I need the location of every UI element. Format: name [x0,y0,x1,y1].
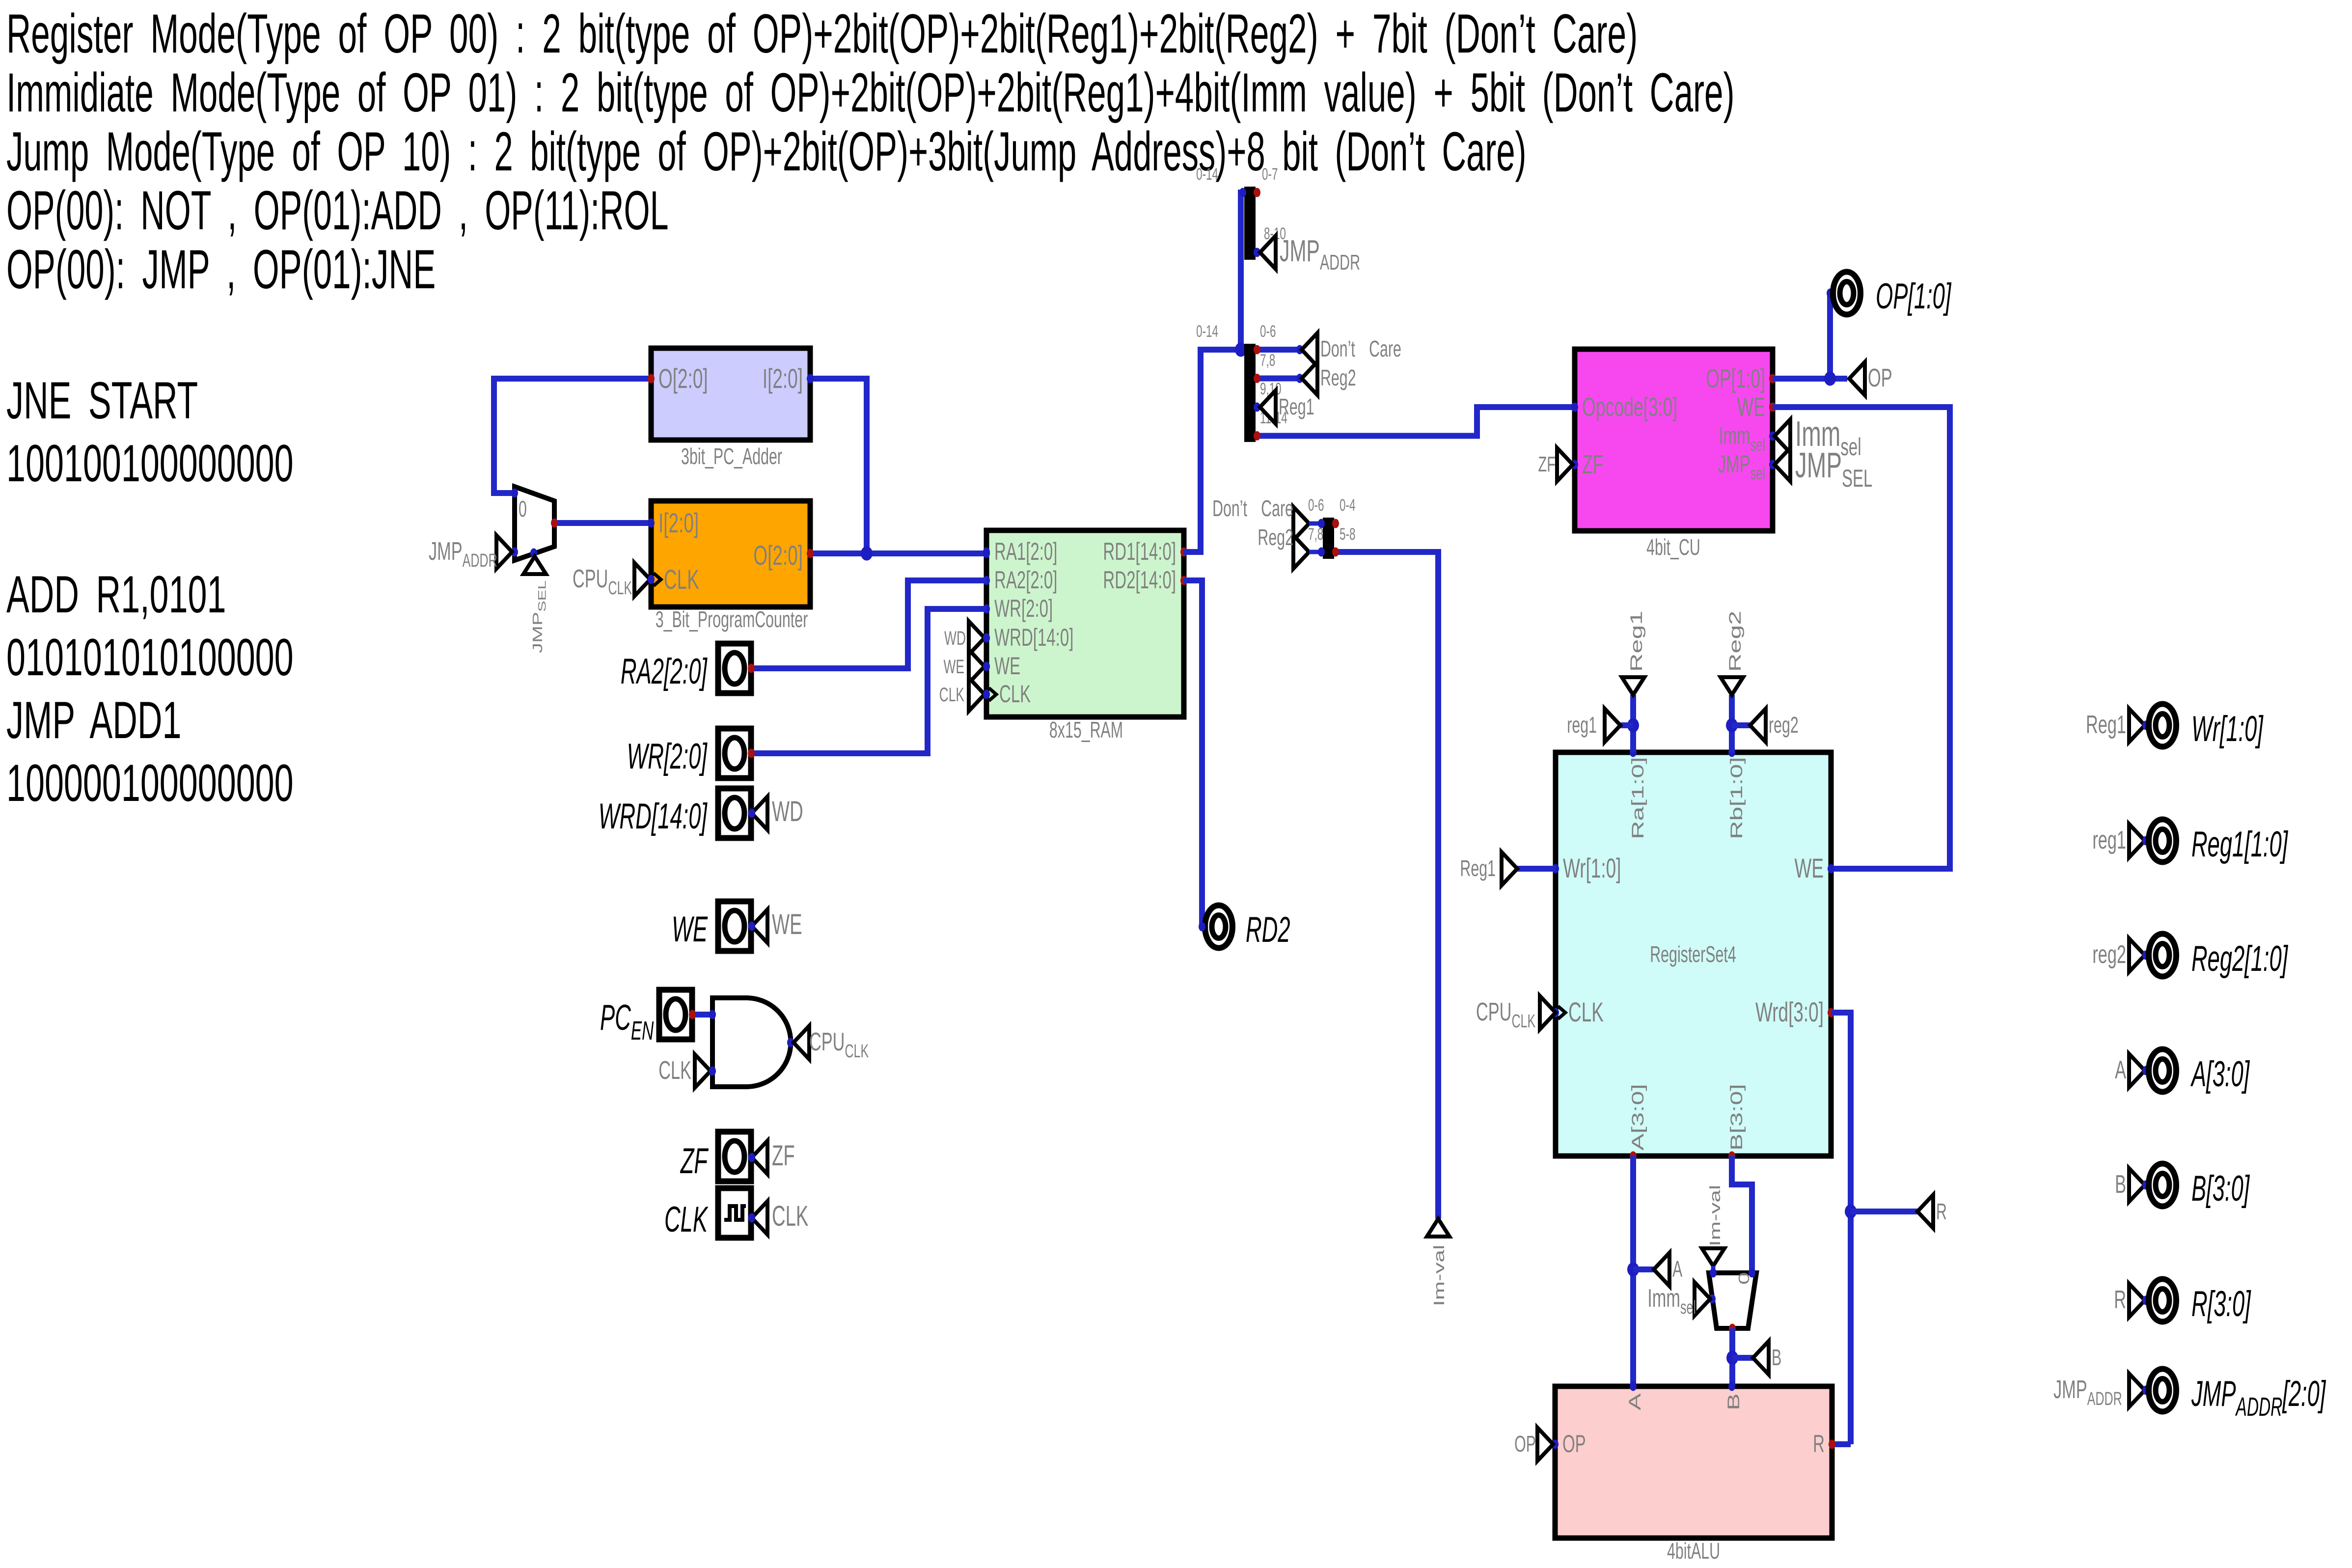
svg-text:RA2[2:0]: RA2[2:0] [994,566,1057,593]
svg-text:100100100000000: 100100100000000 [6,434,294,493]
svg-text:WR[2:0]: WR[2:0] [994,595,1053,622]
svg-text:Im-val: Im-val [1431,1245,1448,1306]
svg-text:B[3:0]: B[3:0] [1727,1084,1746,1151]
svg-text:WE: WE [1737,392,1765,422]
svg-text:reg2: reg2 [1769,713,1799,738]
svg-text:OP[1:0]: OP[1:0] [1876,276,1952,316]
svg-text:A[3:0]: A[3:0] [1629,1084,1647,1151]
svg-text:CLK: CLK [939,684,965,706]
svg-text:OP[1:0]: OP[1:0] [1706,364,1765,393]
svg-text:Reg1[1:0]: Reg1[1:0] [2191,824,2289,864]
svg-text:Wr[1:0]: Wr[1:0] [2191,709,2264,749]
svg-text:3_Bit_ProgramCounter: 3_Bit_ProgramCounter [656,607,808,633]
svg-text:A[3:0]: A[3:0] [2190,1054,2250,1094]
svg-text:RD2[14:0]: RD2[14:0] [1103,566,1176,593]
svg-text:ZF: ZF [1538,452,1556,476]
svg-text:Jump Mode(Type of OP 10) : 2 b: Jump Mode(Type of OP 10) : 2 bit(type of… [6,121,1527,182]
svg-text:Reg2: Reg2 [1258,525,1293,550]
svg-text:3bit_PC_Adder: 3bit_PC_Adder [681,444,782,469]
svg-text:0: 0 [1736,1272,1752,1285]
svg-text:OP(00): JMP , OP(01):JNE: OP(00): JMP , OP(01):JNE [6,239,436,300]
svg-text:7,8: 7,8 [1308,525,1323,544]
svg-text:0-14: 0-14 [1196,322,1218,341]
svg-text:reg1: reg1 [1567,713,1597,738]
svg-text:WRD[14:0]: WRD[14:0] [994,624,1073,651]
svg-text:CLK: CLK [1568,997,1604,1028]
svg-text:0-6: 0-6 [1308,496,1324,515]
svg-text:WR[2:0]: WR[2:0] [627,736,708,776]
svg-text:ADD R1,0101: ADD R1,0101 [6,565,226,624]
svg-text:WD: WD [772,796,803,827]
svg-text:I[2:0]: I[2:0] [763,363,803,394]
svg-text:R: R [2114,1286,2126,1314]
svg-text:7,8: 7,8 [1260,351,1275,370]
svg-text:Ra[1:0]: Ra[1:0] [1629,757,1647,839]
svg-text:JMP ADD1: JMP ADD1 [6,691,181,749]
svg-text:8x15_RAM: 8x15_RAM [1049,718,1123,743]
svg-text:5-8: 5-8 [1340,525,1355,544]
svg-text:WE: WE [672,909,708,949]
svg-text:reg2: reg2 [2092,940,2126,969]
svg-text:B[3:0]: B[3:0] [2191,1168,2250,1209]
svg-text:RD2: RD2 [1246,909,1290,950]
svg-text:WE: WE [1794,853,1824,884]
svg-text:RA2[2:0]: RA2[2:0] [621,651,708,691]
svg-text:WE: WE [994,652,1020,679]
svg-text:Reg1: Reg1 [2086,711,2126,739]
svg-text:100000100000000: 100000100000000 [6,754,294,812]
svg-text:Im-val: Im-val [1707,1185,1723,1246]
svg-text:A: A [1672,1257,1682,1282]
svg-text:Reg2[1:0]: Reg2[1:0] [2191,938,2289,979]
svg-text:OP: OP [1562,1430,1586,1457]
svg-text:A: A [2115,1056,2126,1084]
svg-text:CLK: CLK [664,564,699,595]
svg-text:CLK: CLK [999,680,1031,707]
svg-text:CLK: CLK [664,1199,709,1239]
svg-text:R: R [1936,1200,1947,1225]
svg-text:B: B [1724,1393,1743,1410]
svg-text:010101010100000: 010101010100000 [6,628,294,687]
svg-text:Don’t Care: Don’t Care [1212,496,1293,522]
svg-text:Reg1: Reg1 [1279,395,1314,420]
svg-text:Wr[1:0]: Wr[1:0] [1563,853,1621,884]
svg-text:R[3:0]: R[3:0] [2191,1284,2251,1324]
svg-text:WD: WD [944,628,966,650]
svg-text:B: B [1772,1346,1781,1371]
svg-text:RA1[2:0]: RA1[2:0] [994,538,1057,565]
svg-text:Immidiate Mode(Type of OP 01): Immidiate Mode(Type of OP 01) : 2 bit(ty… [6,62,1735,123]
svg-text:I[2:0]: I[2:0] [658,508,699,539]
svg-text:RD1[14:0]: RD1[14:0] [1103,538,1176,565]
svg-text:OP: OP [1514,1432,1536,1457]
svg-text:R: R [1813,1430,1825,1457]
svg-text:CLK: CLK [658,1056,691,1085]
svg-text:O[2:0]: O[2:0] [658,363,708,394]
svg-text:JNE START: JNE START [6,371,198,430]
svg-text:reg1: reg1 [2092,826,2126,854]
svg-text:O[2:0]: O[2:0] [753,540,803,571]
svg-text:0-14: 0-14 [1196,165,1218,184]
svg-text:4bit_CU: 4bit_CU [1646,535,1700,560]
svg-text:WRD[14:0]: WRD[14:0] [599,796,708,836]
svg-text:OP(00): NOT , OP(01):ADD , OP(: OP(00): NOT , OP(01):ADD , OP(11):ROL [6,180,669,242]
svg-text:RegisterSet4: RegisterSet4 [1650,942,1736,967]
svg-text:Reg2: Reg2 [1726,611,1745,672]
svg-text:Wrd[3:0]: Wrd[3:0] [1755,997,1824,1028]
svg-text:Reg1: Reg1 [1627,611,1646,672]
svg-text:Opcode[3:0]: Opcode[3:0] [1582,392,1677,422]
svg-text:WE: WE [772,909,802,940]
svg-text:0-7: 0-7 [1262,165,1278,184]
svg-text:B: B [2115,1170,2126,1199]
svg-text:Reg1: Reg1 [1460,856,1496,881]
svg-text:ZF: ZF [680,1141,709,1181]
svg-text:ZF: ZF [1582,450,1604,479]
svg-text:Rb[1:0]: Rb[1:0] [1727,757,1746,839]
svg-text:0-4: 0-4 [1340,496,1355,515]
svg-text:ZF: ZF [772,1140,795,1172]
svg-text:4bitALU: 4bitALU [1667,1539,1720,1564]
svg-text:0-6: 0-6 [1260,322,1276,341]
svg-text:0: 0 [519,497,527,522]
svg-text:OP: OP [1868,364,1892,392]
svg-text:WE: WE [943,656,964,678]
svg-text:Don’t Care: Don’t Care [1320,337,1401,362]
svg-text:Reg2: Reg2 [1320,366,1356,391]
svg-text:Register Mode(Type of OP 00) :: Register Mode(Type of OP 00) : 2 bit(typ… [6,3,1638,64]
svg-text:CLK: CLK [772,1201,809,1232]
svg-text:A: A [1626,1393,1644,1410]
